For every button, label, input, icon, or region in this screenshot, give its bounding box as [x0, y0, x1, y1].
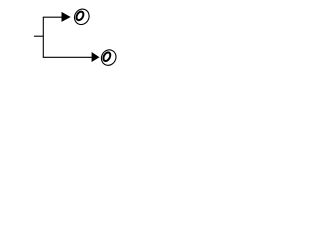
arrow: top branch arrowhead: [62, 12, 71, 22]
wire: top branch horizontal: [43, 16, 62, 18]
wire: left input stub: [34, 35, 43, 37]
wire: vertical branch bus: [42, 17, 44, 57]
wire: bottom branch horizontal: [43, 56, 92, 58]
connector ring: top outer ellipse: [72, 6, 92, 27]
connector ring: top inner ellipse: [75, 10, 85, 21]
connector ring: bottom inner ellipse: [102, 51, 112, 62]
arrow: bottom branch arrowhead: [92, 52, 100, 62]
connector ring: bottom outer ellipse: [99, 47, 119, 68]
